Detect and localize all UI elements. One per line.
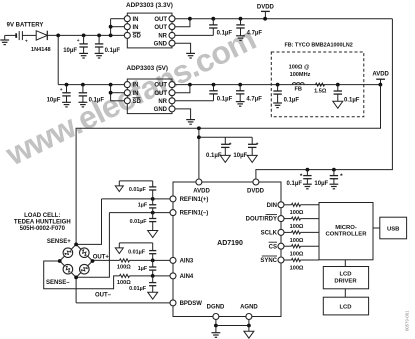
wire REFIN1(+) bbox=[102, 197, 171, 201]
wire diode to regulator input rail bbox=[47, 34, 124, 36]
svg-text:100Ω: 100Ω bbox=[290, 265, 304, 271]
wire IN tap vertical (3.3V) bbox=[109, 19, 125, 36]
resistor 100 ohm (AIN3) bbox=[120, 259, 130, 262]
U2 pin SD bbox=[124, 98, 141, 105]
label 10uF (3.3V input) bbox=[63, 48, 77, 54]
strain gauge bottom-right bbox=[80, 264, 90, 274]
wire DVDD rail right side bbox=[256, 19, 393, 179]
junction filter input cap bbox=[276, 83, 280, 87]
ground (DGND) bbox=[212, 333, 221, 338]
label 0.1uF (3.3V input) bbox=[105, 48, 121, 54]
U1 pin IN 1 bbox=[124, 16, 138, 23]
svg-text:4.7µF: 4.7µF bbox=[246, 96, 262, 102]
svg-text:0.1µF: 0.1µF bbox=[105, 48, 121, 54]
svg-text:OUT: OUT bbox=[154, 91, 167, 97]
U3 pin REFIN1(+) bbox=[170, 196, 208, 203]
label 0.01uF (REFIN1-) bbox=[130, 219, 148, 225]
junction 10uF (3.3V input) bbox=[82, 34, 86, 38]
wire battery negative bbox=[5, 34, 17, 36]
svg-text:DGND: DGND bbox=[207, 304, 225, 310]
junction 0.1uF (3.3V input) bbox=[97, 34, 101, 38]
label 1uF (AIN3-AIN4) bbox=[138, 266, 148, 272]
wire OUT+ to AIN3 bbox=[92, 259, 170, 263]
U3 pin DGND bbox=[207, 304, 225, 319]
label OUT+ bbox=[93, 254, 110, 260]
svg-text:IN: IN bbox=[133, 25, 139, 31]
U1 pin GND bbox=[154, 40, 175, 47]
junction AVDD tap bbox=[379, 83, 383, 87]
U3 pin CS bbox=[269, 242, 284, 250]
junction 0.1uF (5V input) bbox=[81, 83, 85, 87]
strain gauge top-left bbox=[63, 248, 73, 258]
node bridge right (OUT+) bbox=[91, 259, 95, 263]
svg-text:IN: IN bbox=[133, 91, 139, 97]
label 4.7uF (3.3V rail) bbox=[247, 31, 263, 37]
label AD7190 bbox=[217, 240, 243, 247]
wire DGND-AGND tie bbox=[216, 324, 251, 328]
ground AGND triangle bbox=[244, 331, 254, 338]
svg-text:0.1µF: 0.1µF bbox=[217, 96, 233, 102]
label SENSE- bbox=[46, 280, 70, 286]
wire U2 NR bbox=[175, 100, 214, 102]
svg-text:AIN3: AIN3 bbox=[180, 259, 194, 265]
capacitor 0.01uF (REFIN1-) bbox=[148, 213, 158, 238]
svg-text:0.01µF: 0.01µF bbox=[130, 219, 148, 225]
capacitor 0.01uF (REFIN1+) bbox=[115, 181, 156, 199]
U2 pin NR bbox=[158, 98, 175, 105]
resistor 100 ohm (SCLK) bbox=[292, 231, 301, 234]
capacitor 1uF (REFIN1) bbox=[149, 199, 156, 213]
label 0.1uF (U1 NR) bbox=[217, 31, 233, 37]
capacitor 0.1uF (U1 OUT-NR) bbox=[209, 19, 217, 36]
svg-text:AVDD: AVDD bbox=[372, 72, 389, 78]
figure number 00579-061 bbox=[405, 310, 410, 331]
svg-text:10µF: 10µF bbox=[63, 48, 77, 54]
junction filter output cap bbox=[336, 83, 340, 87]
node bridge top (SENSE+) bbox=[74, 243, 78, 247]
svg-text:100Ω: 100Ω bbox=[117, 280, 131, 286]
svg-text:SENSE–: SENSE– bbox=[46, 280, 70, 286]
svg-text:0.01µF: 0.01µF bbox=[129, 286, 147, 292]
dashed filter box bbox=[271, 52, 364, 117]
wire U1 NR bbox=[175, 34, 213, 36]
svg-text:FB: TYCO BMB2A1000LN2: FB: TYCO BMB2A1000LN2 bbox=[284, 43, 352, 49]
strain gauge bottom-left bbox=[63, 264, 73, 274]
svg-text:OUT: OUT bbox=[154, 25, 167, 31]
svg-text:0.01µF: 0.01µF bbox=[128, 250, 146, 256]
resistor 100 ohm (CS) bbox=[292, 245, 301, 248]
U3 pin DVDD bbox=[247, 179, 265, 194]
svg-text:CONTROLLER: CONTROLLER bbox=[326, 232, 368, 238]
label LCD DRIVER bbox=[334, 271, 357, 284]
svg-text:ADP3303 (5V): ADP3303 (5V) bbox=[127, 65, 169, 72]
junction IN tap (5V) bbox=[109, 83, 113, 87]
svg-text:0.1µF: 0.1µF bbox=[344, 97, 360, 103]
svg-text:1µF: 1µF bbox=[138, 266, 148, 272]
wire REFIN1(+) to bridge top bbox=[76, 199, 101, 245]
resistor 100 ohm (AIN4) bbox=[120, 274, 130, 277]
svg-text:SD: SD bbox=[133, 99, 142, 105]
label 10uF (5V input) bbox=[47, 97, 61, 103]
svg-text:100Ω @: 100Ω @ bbox=[289, 64, 310, 70]
svg-text:1N4148: 1N4148 bbox=[31, 47, 51, 53]
wire U1 GND bbox=[175, 43, 191, 53]
node bridge left (OUT-) bbox=[58, 259, 62, 263]
svg-text:LCD: LCD bbox=[339, 305, 351, 311]
U2 pin OUT 2 bbox=[154, 90, 175, 97]
U3 pin SYNC bbox=[260, 256, 284, 264]
label LCD bbox=[339, 305, 351, 311]
wire REFIN1(-) to bridge bottom bbox=[76, 213, 109, 278]
regulator U2 ADP3303 (5V) bbox=[127, 79, 172, 114]
node bridge bottom (SENSE-) bbox=[74, 276, 78, 280]
label MICRO-CONTROLLER bbox=[326, 225, 368, 238]
wire micro to LCD driver bbox=[344, 260, 346, 267]
svg-text:+: + bbox=[25, 40, 28, 45]
junction 4.7uF (U1) bbox=[239, 17, 243, 21]
wire REFIN1(-) bbox=[109, 211, 170, 215]
label 0.1uF (filter input) bbox=[284, 97, 300, 103]
label 0.01uF (AIN3) bbox=[128, 250, 146, 256]
label 0.1uF (5V input) bbox=[89, 97, 105, 103]
capacitor 0.1uF (filter output) bbox=[333, 85, 343, 109]
U2 pin GND bbox=[154, 106, 175, 113]
junction OUT join (U2) bbox=[188, 83, 192, 87]
svg-text:0.1µF: 0.1µF bbox=[206, 153, 222, 159]
wire DIN to micro bbox=[284, 204, 319, 206]
svg-text:100Ω: 100Ω bbox=[117, 265, 131, 271]
junction DVDD tap bbox=[263, 17, 267, 21]
svg-text:NR: NR bbox=[158, 99, 167, 105]
USB box bbox=[380, 217, 407, 239]
svg-text:TEDEA HUNTLEIGH: TEDEA HUNTLEIGH bbox=[14, 220, 71, 226]
regulator U1 ADP3303 (3.3V) bbox=[127, 13, 172, 48]
svg-text:505H-0002-F070: 505H-0002-F070 bbox=[20, 226, 66, 232]
svg-text:ADP3303 (3.3V): ADP3303 (3.3V) bbox=[126, 2, 173, 9]
label USB bbox=[387, 227, 399, 233]
svg-text:+: + bbox=[77, 39, 80, 44]
capacitor 0.01uF (AIN4) bbox=[148, 276, 158, 299]
label 100 ohm (DOUT/RDY) bbox=[290, 224, 304, 230]
svg-text:AVDD: AVDD bbox=[193, 188, 210, 194]
label 100 ohm (AIN4) bbox=[117, 280, 131, 286]
svg-text:10µF: 10µF bbox=[233, 153, 247, 159]
svg-text:REFIN1(–): REFIN1(–) bbox=[180, 211, 209, 217]
label 10uF (AVDD pin) bbox=[233, 153, 247, 159]
svg-text:DVDD: DVDD bbox=[247, 188, 265, 194]
svg-text:0.1µF: 0.1µF bbox=[287, 181, 303, 187]
label SENSE+ bbox=[47, 239, 71, 245]
svg-text:OUT–: OUT– bbox=[95, 292, 112, 298]
LCD driver box bbox=[323, 267, 368, 289]
label OUT- bbox=[95, 292, 112, 298]
U1 pin IN 2 bbox=[124, 24, 138, 31]
svg-text:SD: SD bbox=[133, 34, 142, 40]
junction AVDD branch bbox=[197, 126, 201, 130]
svg-text:10µF: 10µF bbox=[47, 97, 61, 103]
svg-text:9V BATTERY: 9V BATTERY bbox=[7, 22, 44, 28]
wire 5V output rail bbox=[175, 84, 380, 86]
wire micro to USB bbox=[373, 227, 380, 229]
svg-text:BPDSW: BPDSW bbox=[180, 301, 203, 307]
svg-text:FB: FB bbox=[294, 87, 301, 93]
svg-text:MICRO-: MICRO- bbox=[335, 225, 357, 231]
svg-text:SCLK: SCLK bbox=[261, 231, 278, 237]
resistor 1.5 ohm bbox=[314, 83, 327, 95]
wire DGND bbox=[214, 320, 218, 333]
junction IN tap (3.3V) bbox=[109, 34, 113, 38]
wire U2 OUT2 bbox=[175, 85, 190, 93]
capacitor 4.7uF (3.3V rail) bbox=[236, 19, 245, 41]
svg-text:4.7µF: 4.7µF bbox=[247, 31, 263, 37]
junction 0.1uF NR (U2) bbox=[212, 83, 216, 87]
wire SCLK to micro bbox=[284, 231, 319, 233]
capacitor 1uF (AIN3-AIN4) bbox=[149, 260, 156, 276]
svg-text:00579-061: 00579-061 bbox=[405, 310, 410, 331]
svg-text:USB: USB bbox=[387, 227, 399, 233]
capacitor 0.1uF (DVDD pin) bbox=[300, 170, 312, 189]
svg-text:0.01µF: 0.01µF bbox=[129, 187, 147, 193]
junction battery rail to 5V branch bbox=[56, 34, 60, 38]
svg-text:AD7190: AD7190 bbox=[217, 240, 243, 247]
svg-text:OUT+: OUT+ bbox=[93, 254, 110, 260]
strain gauge top-right bbox=[80, 248, 90, 258]
capacitor 0.1uF (filter input) bbox=[273, 85, 282, 108]
ground (U1 GND) bbox=[186, 53, 195, 58]
label 10uF (DVDD pin) bbox=[314, 181, 328, 187]
svg-text:0.1µF: 0.1µF bbox=[284, 97, 300, 103]
svg-text:GND: GND bbox=[154, 41, 168, 47]
junction 10uF (5V input) bbox=[65, 83, 69, 87]
U2 pin IN 2 bbox=[124, 90, 138, 97]
label 0.01uF (AIN4) bbox=[129, 286, 147, 292]
wire U1 OUT2 bbox=[175, 19, 190, 27]
wire AGND bbox=[248, 320, 250, 332]
U3 pin REFIN1(-) bbox=[170, 210, 208, 217]
svg-text:100Ω: 100Ω bbox=[290, 252, 304, 258]
label ADP3303 (5V) bbox=[127, 65, 169, 72]
svg-text:OUT: OUT bbox=[154, 17, 167, 23]
wire CS to micro bbox=[284, 245, 319, 247]
label 0.1uF (filter output) bbox=[344, 97, 360, 103]
svg-text:IN: IN bbox=[133, 83, 139, 89]
label 0.1uF (U2 NR) bbox=[217, 96, 233, 102]
label 4.7uF (5V rail) bbox=[246, 96, 262, 102]
svg-text:OUT: OUT bbox=[154, 83, 167, 89]
resistor 100 ohm (DOUT/RDY) bbox=[292, 217, 301, 220]
svg-text:DIN: DIN bbox=[267, 203, 277, 209]
resistor 100 ohm (DIN) bbox=[292, 203, 301, 206]
U3 pin BPDSW bbox=[170, 300, 202, 307]
svg-text:100Ω: 100Ω bbox=[290, 224, 304, 230]
node AVDD supply bbox=[372, 72, 389, 85]
label 100 ohm (CS) bbox=[290, 252, 304, 258]
svg-text:SYNC: SYNC bbox=[260, 258, 277, 264]
label 100 ohm (AIN3) bbox=[117, 265, 131, 271]
wire AVDD pin branch bbox=[197, 128, 252, 179]
junction DVDD 0.1uF bbox=[306, 168, 310, 172]
wire AVDD rail bbox=[76, 85, 380, 245]
label 0.01uF (REFIN1+) bbox=[129, 187, 147, 193]
U1 pin SD bbox=[124, 32, 141, 39]
wire battery to 5V regulator bbox=[58, 35, 124, 84]
ground (U2 GND) bbox=[186, 120, 195, 125]
label 1N4148 bbox=[31, 47, 51, 53]
resistor 100 ohm (SYNC) bbox=[292, 258, 301, 261]
U3 pin SCLK bbox=[261, 229, 284, 236]
label 100 ohm (SCLK) bbox=[290, 238, 304, 244]
svg-text:10µF: 10µF bbox=[314, 181, 328, 187]
watermark www.elecfans.com bbox=[0, 21, 261, 173]
svg-text:REFIN1(+): REFIN1(+) bbox=[180, 197, 209, 203]
battery BT1 9V bbox=[16, 31, 28, 44]
label 100 ohm (DIN) bbox=[290, 210, 304, 216]
svg-text:DVDD: DVDD bbox=[257, 4, 275, 10]
svg-text:100Ω: 100Ω bbox=[290, 210, 304, 216]
label ADP3303 (3.3V) bbox=[126, 2, 173, 9]
9V BATTERY label bbox=[7, 22, 44, 28]
wire SYNC to micro bbox=[284, 259, 319, 261]
wire U2 GND bbox=[175, 109, 191, 120]
label load cell bbox=[14, 213, 71, 232]
microcontroller box bbox=[319, 203, 373, 260]
svg-text:0.1µF: 0.1µF bbox=[217, 31, 233, 37]
capacitor 4.7uF (5V rail) bbox=[236, 85, 245, 107]
svg-text:CS: CS bbox=[269, 244, 277, 250]
U3 pin AVDD bbox=[193, 179, 210, 194]
svg-text:LCD: LCD bbox=[339, 271, 351, 277]
capacitor 0.1uF (5V input) bbox=[79, 85, 88, 107]
junction DVDD 10uF bbox=[332, 168, 336, 172]
label FB: TYCO BMB2A1000LN2 bbox=[284, 43, 352, 49]
wire DOUT/RDY to micro bbox=[284, 218, 319, 220]
load cell bridge edges bbox=[60, 244, 93, 277]
capacitor 0.01uF (AIN3) bbox=[115, 243, 156, 261]
U1 pin OUT 1 bbox=[154, 16, 175, 23]
diode D1 1N4148 bbox=[36, 31, 47, 40]
U3 pin AGND bbox=[240, 304, 258, 319]
capacitor 10uF (DVDD pin) bbox=[330, 170, 344, 189]
LCD box bbox=[323, 297, 368, 315]
svg-text:AIN4: AIN4 bbox=[180, 274, 194, 280]
capacitor 10uF (AVDD pin) bbox=[247, 137, 259, 162]
wire 3.3V output rail bbox=[175, 18, 392, 20]
wire BPDSW bbox=[76, 277, 170, 303]
U1 pin OUT 2 bbox=[154, 24, 175, 31]
svg-text:IN: IN bbox=[133, 17, 139, 23]
wire OUT- to AIN4 bbox=[44, 261, 170, 289]
svg-text:1µF: 1µF bbox=[138, 203, 148, 209]
U2 pin OUT 1 bbox=[154, 82, 175, 89]
capacitor 10uF (5V input) bbox=[60, 85, 71, 107]
svg-text:100Ω: 100Ω bbox=[290, 238, 304, 244]
wire LCD driver to LCD bbox=[344, 289, 346, 297]
U3 pin AIN3 bbox=[170, 257, 194, 264]
junction OUT join (U1) bbox=[188, 17, 192, 21]
U3 pin DOUT/RDY bbox=[246, 215, 284, 223]
ferrite bead FB bbox=[292, 83, 304, 93]
svg-text:DRIVER: DRIVER bbox=[334, 278, 357, 284]
svg-text:DOUT/RDY: DOUT/RDY bbox=[246, 217, 277, 223]
ADC U3 AD7190 body bbox=[173, 182, 281, 317]
svg-text:100MHz: 100MHz bbox=[290, 72, 311, 78]
capacitor 10uF (3.3V input) bbox=[77, 35, 88, 58]
svg-text:LOAD CELL:: LOAD CELL: bbox=[24, 213, 60, 219]
label 100 ohm (SYNC) bbox=[290, 265, 304, 271]
label 0.1uF (DVDD pin) bbox=[287, 181, 303, 187]
capacitor 0.1uF (AVDD pin) bbox=[220, 137, 232, 162]
U3 pin AIN4 bbox=[170, 273, 194, 280]
capacitor 0.1uF (U2 OUT-NR) bbox=[209, 85, 217, 101]
wire IN tap vertical (5V) bbox=[109, 85, 125, 101]
U3 pin DIN bbox=[267, 202, 284, 209]
label 0.1uF (AVDD pin) bbox=[206, 153, 222, 159]
svg-text:NR: NR bbox=[158, 34, 167, 40]
node DVDD supply bbox=[257, 4, 275, 18]
junction 4.7uF (U2) bbox=[238, 83, 242, 87]
U1 pin NR bbox=[158, 32, 175, 39]
svg-text:GND: GND bbox=[154, 107, 168, 113]
U2 pin IN 1 bbox=[124, 82, 138, 89]
svg-text:0.1µF: 0.1µF bbox=[89, 97, 105, 103]
ground (battery negative) bbox=[0, 35, 9, 44]
label 100ohm at 100MHz bbox=[289, 64, 311, 77]
svg-text:1.5Ω: 1.5Ω bbox=[314, 89, 327, 95]
capacitor 0.1uF (3.3V input) bbox=[95, 35, 104, 58]
svg-text:+: + bbox=[60, 88, 63, 93]
svg-text:AGND: AGND bbox=[240, 304, 258, 310]
label 1uF (REFIN1) bbox=[138, 203, 148, 209]
junction 0.1uF NR (U1) bbox=[211, 17, 215, 21]
svg-text:SENSE+: SENSE+ bbox=[47, 239, 71, 245]
wire battery to diode bbox=[22, 34, 36, 36]
